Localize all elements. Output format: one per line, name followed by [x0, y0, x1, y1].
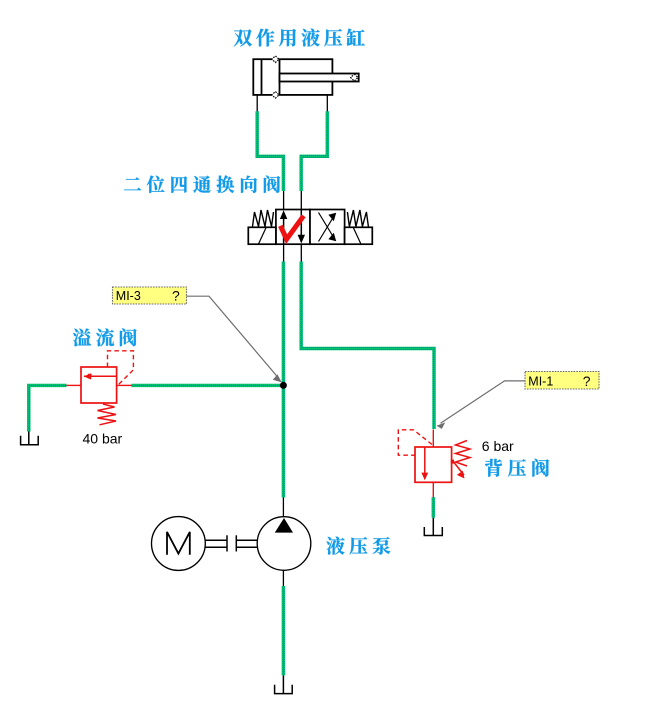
- cylinder port stubs: [257, 95, 327, 112]
- wire valve T to back-pressure branch: [301, 262, 434, 430]
- relief valve RV1 spring: [98, 404, 117, 425]
- wire valve P to junction to pump: [282, 262, 285, 498]
- wire relief valve to left tank: [29, 385, 67, 431]
- valve V1 right solenoid box: [345, 227, 373, 244]
- label 背压阀 (back-pressure valve): [485, 459, 549, 477]
- pump P1 triangle: [275, 518, 293, 533]
- valve V1 left solenoid slash: [259, 228, 266, 244]
- leader arrow MI-1 to wire end: [441, 381, 526, 423]
- back-pressure valve BV1 internal arrow: [424, 447, 426, 479]
- pump P1 circle: [257, 517, 311, 571]
- valve V1 bottom port stubs: [284, 244, 302, 261]
- relief valve RV1 internal arrow: [84, 375, 117, 377]
- wire pump to bottom tank: [282, 586, 285, 675]
- valve V1 right solenoid slash: [354, 228, 361, 244]
- relief valve RV1 port stubs: [67, 384, 132, 386]
- tank T1 left: [21, 432, 39, 445]
- shaft coupling motor-pump: [205, 535, 257, 551]
- junction node: [280, 382, 287, 389]
- back-pressure valve BV1 adjust arrow: [451, 460, 454, 464]
- wire cylinder-right to valve port B: [301, 111, 327, 191]
- wire cylinder-left to valve port A: [257, 111, 283, 191]
- valve V1 body squares: [276, 210, 345, 245]
- tank T3 bottom: [275, 675, 293, 693]
- valve V1 right position crossed arrows: [319, 213, 335, 242]
- back-pressure valve BV1 top port stub: [432, 430, 434, 448]
- label 二位四通换向阀 (4/2-way directional valve): [124, 175, 280, 193]
- wire back-pressure valve to right tank: [432, 497, 435, 518]
- valve V1 left position flow arrows: [284, 210, 302, 245]
- motor M1 circle: [152, 517, 206, 571]
- back-pressure valve BV1 body: [415, 447, 452, 482]
- leader arrow MI-3 to junction: [187, 296, 279, 378]
- label 液压泵 (hydraulic pump): [326, 537, 390, 555]
- valve V1 top port stubs: [284, 191, 302, 210]
- wire junction to relief valve: [132, 384, 284, 387]
- back-pressure valve BV1 bottom port stub: [432, 482, 434, 499]
- valve V1 left return spring: [253, 210, 274, 227]
- relief valve RV1 pilot dashed line: [108, 351, 134, 385]
- svg-text:MI-3: MI-3: [116, 289, 141, 303]
- svg-text:40 bar: 40 bar: [83, 430, 123, 446]
- label 双作用液压缸 (double-acting hydraulic cylinder): [234, 29, 365, 47]
- measurement label MI-1 box: [525, 372, 599, 390]
- pump P1 bottom stub: [282, 570, 284, 586]
- tank T2 right: [424, 518, 442, 536]
- svg-text:6 bar: 6 bar: [482, 438, 514, 454]
- back-pressure valve BV1 pilot dashed line: [398, 430, 432, 455]
- motor M1 letter M: [167, 532, 190, 555]
- svg-text:?: ?: [583, 373, 591, 389]
- measurement label MI-3 box: [113, 287, 187, 304]
- label 溢流阀 (relief valve): [73, 328, 137, 346]
- valve V1 active position red check mark: [280, 216, 303, 239]
- relief valve RV1 body: [81, 367, 117, 403]
- cylinder marker diamond rod end: [351, 74, 358, 81]
- valve V1 left solenoid box: [248, 227, 276, 244]
- valve V1 right return spring: [347, 210, 368, 227]
- pump P1 top stub: [282, 498, 284, 517]
- cylinder marker diamond top: [272, 56, 279, 63]
- svg-text:?: ?: [172, 287, 180, 303]
- back-pressure valve BV1 spring: [456, 441, 471, 467]
- cylinder A1 body: [253, 59, 332, 95]
- svg-text:MI-1: MI-1: [528, 374, 553, 388]
- cylinder marker diamond bottom: [272, 92, 279, 99]
- cylinder piston rod: [280, 74, 359, 82]
